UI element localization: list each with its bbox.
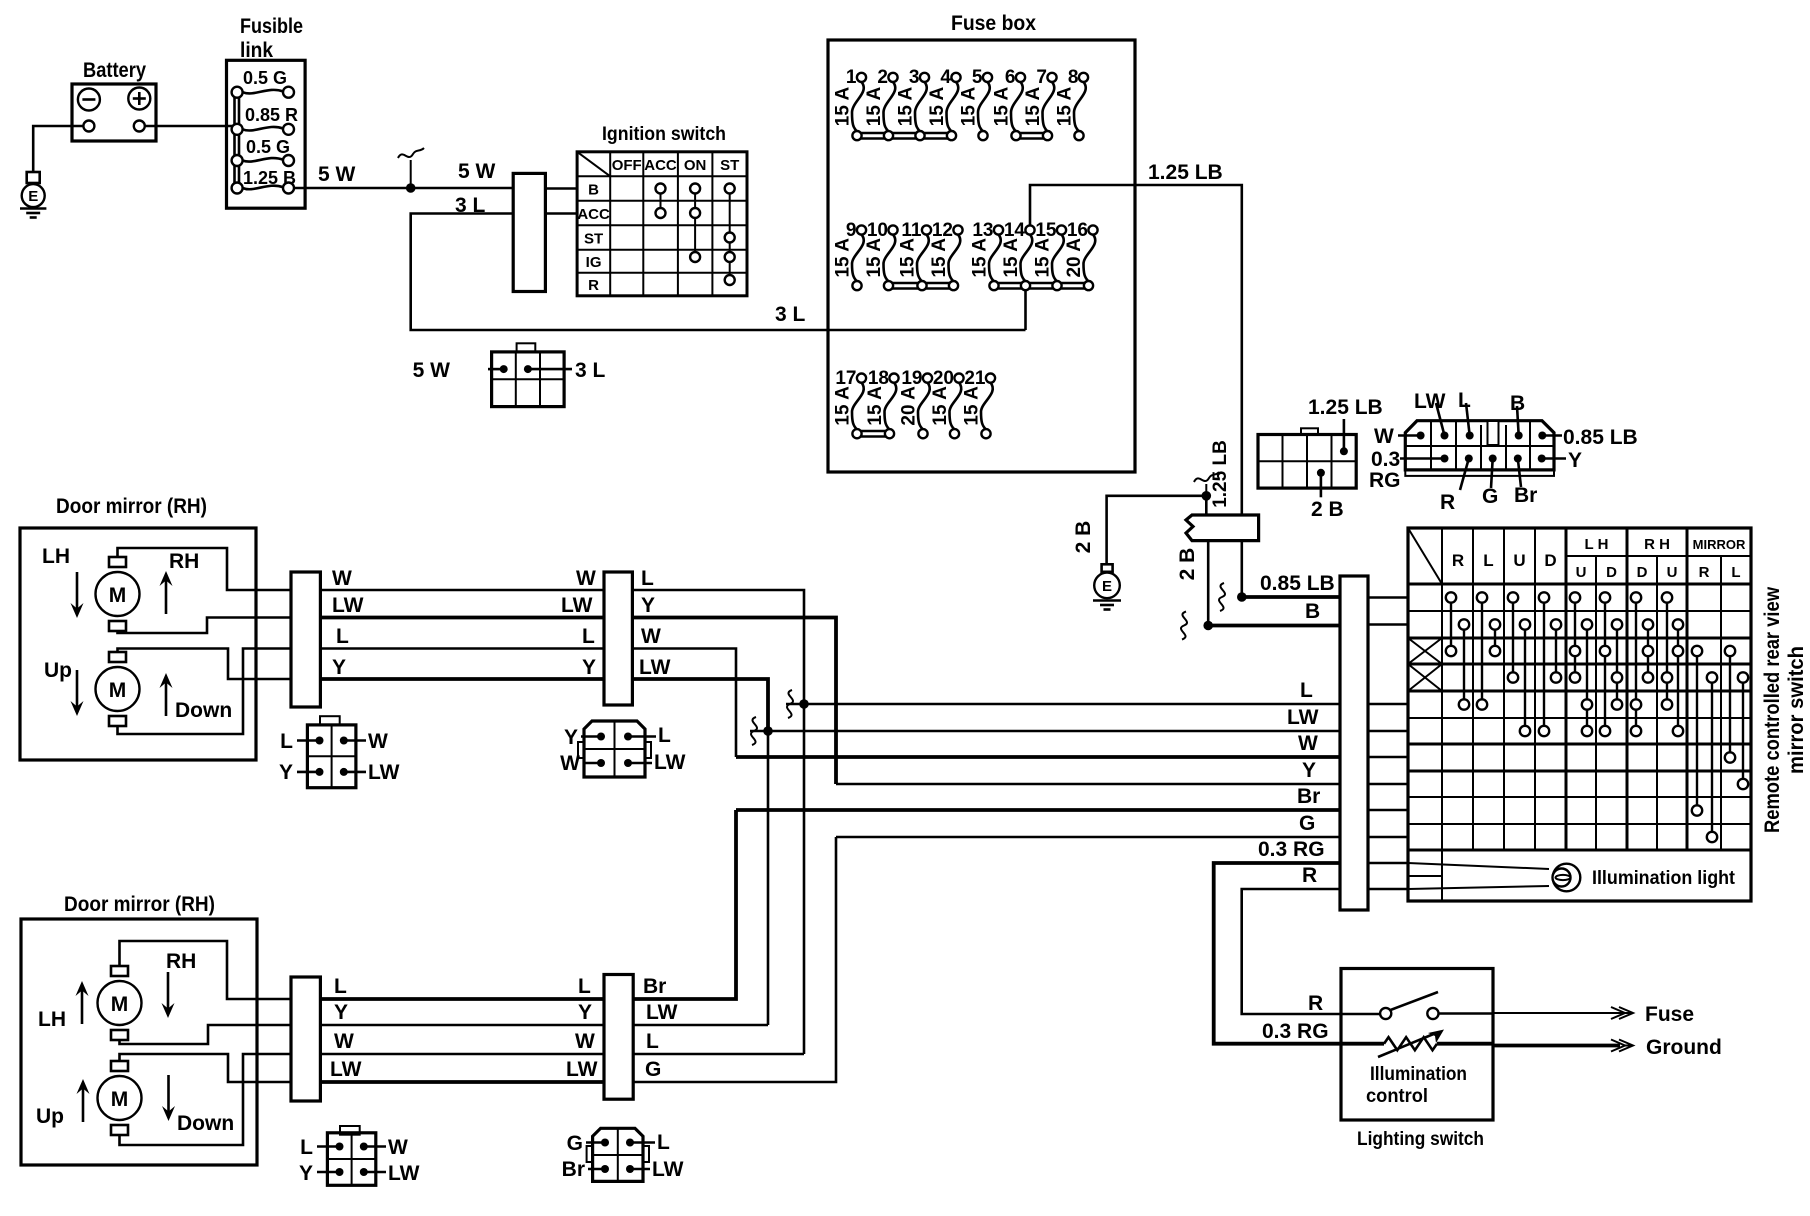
wire run W xyxy=(320,589,604,592)
wire LW vertical to lower mirror xyxy=(767,731,770,1025)
svg-text:G: G xyxy=(1299,812,1315,835)
svg-text:19: 19 xyxy=(901,368,922,389)
svg-text:B: B xyxy=(1510,392,1525,415)
wire run Y xyxy=(320,677,604,681)
fuse 2 xyxy=(864,67,898,140)
ignition table frame xyxy=(577,152,747,296)
svg-text:LW: LW xyxy=(1414,390,1446,413)
svg-text:LW: LW xyxy=(566,1058,598,1081)
svg-text:M: M xyxy=(109,584,127,607)
door mirror upper box xyxy=(20,528,256,760)
svg-text:L: L xyxy=(1458,389,1471,412)
svg-text:Y: Y xyxy=(334,1001,348,1024)
svg-text:U: U xyxy=(1576,564,1587,581)
svg-text:2 B: 2 B xyxy=(1311,498,1344,521)
ignition table headers xyxy=(577,157,739,294)
svg-text:15 A: 15 A xyxy=(927,87,948,127)
arrow down RH lower xyxy=(167,972,170,1010)
wire LW row to switch connector xyxy=(750,730,1340,733)
10-pin pins xyxy=(1417,432,1425,440)
motor M1 upper xyxy=(109,557,126,567)
fuse 1 xyxy=(833,67,867,140)
fuse 10 xyxy=(864,220,898,290)
svg-text:L: L xyxy=(657,1131,670,1154)
connector 4pin lower-left xyxy=(340,1126,360,1135)
wire M2 bottom to W lower xyxy=(120,1054,292,1145)
wire run Y lower xyxy=(320,1024,604,1027)
svg-text:D: D xyxy=(1606,564,1617,581)
wire 5W from fusible link to ignition connector xyxy=(294,187,513,190)
svg-text:15 A: 15 A xyxy=(865,386,886,426)
connector 4pin upper-left xyxy=(320,716,340,725)
fuse 7 xyxy=(1023,67,1057,140)
connector lower-middle tall xyxy=(604,975,633,1100)
fuse 13 xyxy=(970,220,1004,290)
wire run L lower xyxy=(320,997,604,1001)
svg-text:Ignition switch: Ignition switch xyxy=(602,124,726,145)
wire L from upper connector to switch xyxy=(632,590,804,704)
connector upper-middle tall xyxy=(604,572,632,705)
svg-text:B: B xyxy=(1305,600,1320,623)
fuse 9 xyxy=(833,220,867,290)
svg-text:5 W: 5 W xyxy=(458,160,496,183)
fuse 6 xyxy=(992,67,1026,140)
contact circle row10 mirror R xyxy=(1707,832,1717,842)
svg-text:7: 7 xyxy=(1036,67,1047,88)
bridge MIRROR-R right xyxy=(1711,678,1713,838)
svg-text:LH: LH xyxy=(42,545,70,568)
svg-text:Remote controlled rear view: Remote controlled rear view xyxy=(1761,586,1784,833)
wire M2 bottom to L xyxy=(118,649,292,735)
svg-text:15 A: 15 A xyxy=(970,238,991,278)
svg-text:L: L xyxy=(646,1030,659,1053)
svg-text:0.85 R: 0.85 R xyxy=(245,105,298,125)
wire L vertical to lower mirror xyxy=(803,704,806,1054)
svg-text:Ground: Ground xyxy=(1646,1036,1722,1059)
lighting switch contact xyxy=(1341,1013,1380,1016)
svg-text:W: W xyxy=(575,1030,595,1053)
svg-text:15 A: 15 A xyxy=(864,238,885,278)
wire run LW xyxy=(320,616,604,620)
svg-text:LW: LW xyxy=(654,751,686,774)
svg-text:RH: RH xyxy=(166,950,196,973)
fuse 8 xyxy=(1055,67,1089,140)
svg-text:15: 15 xyxy=(1035,220,1057,241)
bridge LH-U left xyxy=(1574,598,1576,678)
fuse row2 bus 10-12 xyxy=(889,282,954,285)
svg-text:15 A: 15 A xyxy=(1055,87,1076,127)
bridge MIRROR-L left xyxy=(1729,651,1731,758)
fuse 14 xyxy=(1001,220,1035,290)
curl at 0.85LB junction xyxy=(1219,583,1225,611)
contact circle row8 mirror L xyxy=(1738,779,1748,789)
svg-text:Y: Y xyxy=(578,1001,592,1024)
wire Br row to switch connector xyxy=(736,808,1340,812)
svg-text:Illumination light: Illumination light xyxy=(1592,868,1736,889)
svg-text:R H: R H xyxy=(1644,536,1670,553)
switch connector tall xyxy=(1340,576,1368,910)
svg-text:G: G xyxy=(645,1058,661,1081)
fuse 16 xyxy=(1064,220,1098,290)
svg-text:R: R xyxy=(588,277,599,294)
svg-text:15 A: 15 A xyxy=(833,386,854,426)
svg-text:Down: Down xyxy=(177,1112,234,1135)
wire 1.25LB from fuse 14 xyxy=(1030,185,1242,515)
svg-text:LH: LH xyxy=(38,1008,66,1031)
svg-text:R: R xyxy=(1308,992,1323,1015)
ground E right xyxy=(1102,564,1113,572)
wire 3L up to fuse 13-16 bus xyxy=(1024,290,1027,330)
svg-text:Br: Br xyxy=(1514,484,1537,507)
svg-text:3: 3 xyxy=(909,67,920,88)
svg-text:LW: LW xyxy=(330,1058,362,1081)
svg-text:15 A: 15 A xyxy=(929,238,950,278)
svg-text:0.3 RG: 0.3 RG xyxy=(1258,838,1325,861)
fuse 21 xyxy=(962,368,996,438)
wire M1 bottom to Y lower xyxy=(120,1025,292,1044)
svg-text:LW: LW xyxy=(639,656,671,679)
wire M1 top to W xyxy=(118,548,292,590)
contact circles row5 xyxy=(1459,699,1672,709)
svg-text:control: control xyxy=(1366,1086,1428,1107)
wire W row to switch connector xyxy=(736,755,1340,759)
svg-text:L: L xyxy=(334,975,347,998)
lighting switch box xyxy=(1341,969,1493,1121)
arrow up Up lower xyxy=(82,1087,85,1122)
svg-text:15 A: 15 A xyxy=(962,386,983,426)
svg-text:Br: Br xyxy=(562,1158,585,1181)
svg-text:Y: Y xyxy=(641,594,655,617)
svg-text:M: M xyxy=(111,993,129,1016)
svg-text:Y: Y xyxy=(299,1162,313,1185)
svg-text:W: W xyxy=(332,567,352,590)
fusible link bus xyxy=(233,92,236,188)
svg-text:ACC: ACC xyxy=(577,206,610,223)
svg-text:2 B: 2 B xyxy=(1072,521,1095,554)
svg-text:L: L xyxy=(641,567,654,590)
svg-text:RG: RG xyxy=(1369,469,1401,492)
svg-text:L H: L H xyxy=(1585,536,1609,553)
svg-text:W: W xyxy=(388,1136,408,1159)
arrow up Down upper xyxy=(165,681,168,716)
svg-text:21: 21 xyxy=(964,368,986,389)
curl at 5W junction xyxy=(398,148,424,188)
svg-text:R: R xyxy=(1302,864,1317,887)
svg-text:6: 6 xyxy=(1005,67,1016,88)
fuse 4 xyxy=(927,67,961,140)
svg-text:B: B xyxy=(588,182,599,199)
junction 0.85LB xyxy=(1237,592,1247,602)
fuse row1 bus 1-4 xyxy=(857,132,952,135)
svg-text:4: 4 xyxy=(940,67,951,88)
svg-text:15 A: 15 A xyxy=(1023,87,1044,127)
svg-text:Door mirror (RH): Door mirror (RH) xyxy=(56,495,207,518)
X cell row4 xyxy=(1408,664,1442,691)
junction B xyxy=(1203,621,1213,631)
svg-text:9: 9 xyxy=(846,220,857,241)
svg-text:16: 16 xyxy=(1067,220,1088,241)
svg-text:R: R xyxy=(1699,564,1710,581)
wire 2B to ground xyxy=(1107,496,1207,564)
contact circles row3 xyxy=(1446,646,1735,656)
motor M2 lower xyxy=(111,1061,128,1071)
svg-text:MIRROR: MIRROR xyxy=(1693,537,1746,552)
svg-text:8: 8 xyxy=(1068,67,1079,88)
wire M1 bottom to LW xyxy=(118,618,292,634)
svg-text:L: L xyxy=(300,1136,313,1159)
wire Br from lower connector xyxy=(633,810,736,999)
svg-text:18: 18 xyxy=(868,368,889,389)
fuse 5 xyxy=(959,67,993,140)
fuse 19 xyxy=(899,368,933,438)
wire LW from upper connector xyxy=(632,679,768,731)
curl at B junction xyxy=(1181,612,1187,640)
bridge LH-U right xyxy=(1586,625,1588,732)
svg-text:L: L xyxy=(1731,564,1740,581)
svg-text:G: G xyxy=(567,1132,583,1155)
10-pin callouts xyxy=(1398,434,1421,437)
connector 5W 3L xyxy=(517,343,536,352)
wire M2 top to LW lower xyxy=(120,1054,292,1082)
svg-text:Y: Y xyxy=(582,656,596,679)
svg-text:20 A: 20 A xyxy=(1064,238,1085,278)
svg-text:3 L: 3 L xyxy=(775,303,806,326)
svg-text:Fuse box: Fuse box xyxy=(951,12,1036,35)
svg-text:LW: LW xyxy=(388,1162,420,1185)
arrow up LH lower xyxy=(81,989,84,1024)
svg-text:Br: Br xyxy=(643,975,666,998)
wire M1 top to L lower xyxy=(120,941,292,999)
fuse 17 xyxy=(833,368,867,438)
connector 4pin lower-middle chamfered xyxy=(593,1128,643,1181)
contact circles row2 xyxy=(1459,619,1683,629)
wire B to switch connector xyxy=(1208,624,1340,628)
bridge LH-D right xyxy=(1616,625,1618,705)
svg-text:LW: LW xyxy=(646,1001,678,1024)
svg-text:5: 5 xyxy=(972,67,983,88)
ground E battery xyxy=(27,172,40,183)
svg-text:Lighting switch: Lighting switch xyxy=(1357,1129,1484,1150)
bridge MIRROR-R left xyxy=(1696,651,1698,811)
wire battery positive to fusible link xyxy=(145,125,233,128)
svg-text:E: E xyxy=(1102,578,1112,595)
wire L lower horizontal xyxy=(633,1053,804,1056)
contact circles row1 xyxy=(1446,592,1672,602)
wire run W lower xyxy=(320,1053,604,1056)
joint rectangle xyxy=(1186,515,1259,541)
svg-text:W: W xyxy=(641,625,661,648)
ignition contacts ST column xyxy=(729,189,731,281)
svg-text:L: L xyxy=(336,625,349,648)
svg-text:0.3: 0.3 xyxy=(1371,448,1400,471)
svg-text:0.85 LB: 0.85 LB xyxy=(1563,426,1638,449)
wire 3L from ignition connector xyxy=(411,214,1026,331)
svg-text:R: R xyxy=(1452,551,1464,570)
wire run LW lower xyxy=(320,1080,604,1084)
svg-text:E: E xyxy=(28,188,38,205)
ignition contacts ON column xyxy=(694,189,696,258)
junction L xyxy=(799,699,809,709)
battery xyxy=(72,84,156,141)
svg-text:W: W xyxy=(576,567,596,590)
contact circles row4 xyxy=(1508,672,1748,682)
svg-text:ON: ON xyxy=(684,157,707,174)
fuse 18 xyxy=(865,368,899,438)
bridge L left xyxy=(1481,598,1483,705)
fuse 11 xyxy=(898,220,932,290)
wire Y from upper connector xyxy=(632,618,836,785)
svg-text:20: 20 xyxy=(933,368,954,389)
fuse 3 xyxy=(896,67,930,140)
wire G row to switch connector xyxy=(836,836,1340,839)
svg-text:LW: LW xyxy=(561,594,593,617)
arrow down LH upper xyxy=(76,572,79,610)
svg-text:Y: Y xyxy=(1302,759,1316,782)
curl at 2B junction top xyxy=(1194,472,1219,496)
bridge RH-D right xyxy=(1647,625,1649,678)
wire 0.85LB vertical xyxy=(1241,541,1244,597)
svg-text:LW: LW xyxy=(332,594,364,617)
svg-text:Door mirror (RH): Door mirror (RH) xyxy=(64,893,215,916)
motor M1 lower xyxy=(111,966,128,976)
bridge R left xyxy=(1450,598,1452,652)
bridge U left xyxy=(1512,598,1514,678)
connector lower-left tall xyxy=(291,977,320,1101)
svg-text:IG: IG xyxy=(586,254,602,271)
wire M2 top to Y xyxy=(118,649,292,680)
svg-text:L: L xyxy=(582,625,595,648)
bridge U right xyxy=(1524,625,1526,732)
svg-text:Battery: Battery xyxy=(83,59,146,82)
svg-text:Up: Up xyxy=(44,659,72,682)
svg-text:D: D xyxy=(1544,551,1556,570)
svg-text:link: link xyxy=(240,39,273,62)
svg-text:L: L xyxy=(280,730,293,753)
svg-text:Fuse: Fuse xyxy=(1645,1003,1694,1026)
svg-text:W: W xyxy=(560,752,580,775)
svg-text:L: L xyxy=(658,724,671,747)
svg-text:M: M xyxy=(109,679,127,702)
fuse row1 bus 6-7 xyxy=(1016,132,1048,135)
svg-text:W: W xyxy=(334,1030,354,1053)
wire W from upper connector xyxy=(632,649,736,758)
pin 2B on 8-cell xyxy=(1317,469,1325,477)
contact circle row9 mirror R xyxy=(1692,805,1702,815)
svg-text:Y: Y xyxy=(279,761,293,784)
illumination control resistor xyxy=(1341,1042,1384,1046)
svg-text:0.5 G: 0.5 G xyxy=(246,137,290,157)
wire L row to switch connector xyxy=(786,703,1340,706)
fuse row3 bus 17-18 xyxy=(857,430,890,433)
svg-text:2 B: 2 B xyxy=(1176,548,1199,581)
connector upper-left tall xyxy=(291,572,320,707)
wire LW lower horizontal xyxy=(633,1024,768,1027)
svg-text:17: 17 xyxy=(835,368,856,389)
svg-text:LW: LW xyxy=(368,761,400,784)
arrow down Up upper xyxy=(76,670,79,708)
connector stubs to table xyxy=(1368,598,1408,890)
table grid horizontals xyxy=(1408,556,1751,876)
svg-text:Y: Y xyxy=(332,656,346,679)
svg-text:Y: Y xyxy=(1568,449,1582,472)
svg-text:LW: LW xyxy=(1287,706,1319,729)
ground arrow xyxy=(1493,1044,1620,1048)
bridge L right xyxy=(1494,625,1496,652)
junction 5W xyxy=(406,183,416,193)
svg-text:ST: ST xyxy=(720,157,739,174)
svg-text:U: U xyxy=(1667,564,1678,581)
svg-text:M: M xyxy=(111,1088,129,1111)
bridge RH-D left xyxy=(1635,598,1637,732)
contact bridges xyxy=(1451,598,1743,838)
svg-text:L: L xyxy=(1300,679,1313,702)
svg-text:15 A: 15 A xyxy=(1033,238,1054,278)
svg-text:L: L xyxy=(1483,551,1493,570)
svg-text:11: 11 xyxy=(901,220,922,241)
bridge RH-U left xyxy=(1666,598,1668,705)
mirror switch table frame xyxy=(1408,528,1751,901)
illumination lamp xyxy=(1553,864,1581,892)
svg-text:15 A: 15 A xyxy=(896,87,917,127)
svg-text:RH: RH xyxy=(169,550,199,573)
svg-text:ST: ST xyxy=(584,231,603,248)
fusible link box xyxy=(227,60,306,208)
connector 4pin upper-middle chamfered xyxy=(584,721,645,777)
svg-text:0.5 G: 0.5 G xyxy=(243,68,287,88)
bridge LH-D left xyxy=(1604,598,1606,732)
fuse box border xyxy=(828,40,1135,472)
X cell row3 xyxy=(1408,638,1442,664)
header diagonal xyxy=(1408,528,1442,584)
svg-text:Up: Up xyxy=(36,1105,64,1128)
wire 2B below rect xyxy=(1207,541,1210,626)
svg-text:1.25 LB: 1.25 LB xyxy=(1148,161,1223,184)
wire R row xyxy=(1242,889,1341,1014)
svg-text:D: D xyxy=(1637,564,1648,581)
table grid verticals xyxy=(1442,528,1721,901)
door mirror lower box xyxy=(21,919,257,1165)
svg-text:Y: Y xyxy=(564,726,578,749)
fuse 15 xyxy=(1033,220,1067,290)
bridge RH-U right xyxy=(1677,625,1679,732)
svg-text:15 A: 15 A xyxy=(864,87,885,127)
svg-text:L: L xyxy=(578,975,591,998)
svg-text:mirror switch: mirror switch xyxy=(1785,646,1808,774)
svg-text:13: 13 xyxy=(972,220,993,241)
header labels xyxy=(1452,536,1746,581)
svg-text:15 A: 15 A xyxy=(930,386,951,426)
curl at LW junction xyxy=(751,717,757,745)
svg-text:5 W: 5 W xyxy=(413,359,451,382)
svg-text:U: U xyxy=(1513,551,1525,570)
motor M2 upper xyxy=(109,652,126,662)
wire B to ignition table xyxy=(545,187,577,190)
connector 10-pin mirror switch xyxy=(1405,421,1554,470)
svg-text:R: R xyxy=(1440,491,1455,514)
svg-text:W: W xyxy=(368,730,388,753)
svg-text:Down: Down xyxy=(175,699,232,722)
resistor arrow xyxy=(1378,1033,1436,1057)
svg-text:W: W xyxy=(1298,732,1318,755)
wire Y row to switch connector xyxy=(836,783,1340,786)
svg-text:OFF: OFF xyxy=(612,157,642,174)
fuse 20 xyxy=(930,368,964,438)
svg-text:15 A: 15 A xyxy=(898,238,919,278)
svg-text:ACC: ACC xyxy=(644,157,677,174)
svg-text:3 L: 3 L xyxy=(575,359,606,382)
svg-text:10: 10 xyxy=(867,220,888,241)
illumination wires xyxy=(1408,863,1549,869)
